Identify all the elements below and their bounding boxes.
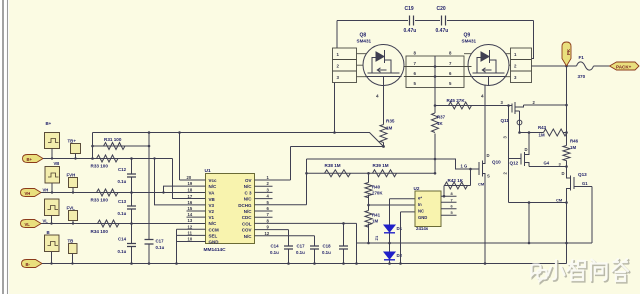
wire row3 VL to pin13 <box>41 223 206 225</box>
grid pin numbers <box>414 51 453 87</box>
svg-text:Q13: Q13 <box>578 172 587 177</box>
wire OV cross rail <box>307 172 436 174</box>
svg-text:12: 12 <box>265 231 270 236</box>
svg-text:Q12: Q12 <box>510 161 519 166</box>
svg-text:B+: B+ <box>27 157 33 162</box>
svg-text:17: 17 <box>188 194 193 199</box>
IC right pin numbers <box>265 175 270 236</box>
svg-text:R46: R46 <box>570 139 579 144</box>
svg-text:R33 100: R33 100 <box>91 198 109 203</box>
wire COL drop <box>356 223 358 243</box>
transistor Q11 <box>512 102 524 133</box>
svg-text:13: 13 <box>188 218 193 223</box>
svg-text:4: 4 <box>481 94 484 99</box>
svg-text:V3: V3 <box>209 203 215 208</box>
capacitor C18 <box>339 246 348 249</box>
wire CM return line <box>357 242 593 244</box>
svg-text:0.47u: 0.47u <box>436 28 449 34</box>
wire box B+ stub <box>51 149 53 159</box>
svg-text:R41: R41 <box>372 213 381 218</box>
svg-text:1M: 1M <box>539 133 545 138</box>
svg-text:In: In <box>418 202 422 207</box>
svg-text:VB: VB <box>209 197 216 202</box>
svg-text:Z1: Z1 <box>374 235 379 240</box>
transistor Q10 <box>475 153 486 177</box>
wire Q12 gate bottom drop <box>509 202 567 204</box>
wire box row2 stub <box>51 183 53 193</box>
svg-text:2414s: 2414s <box>416 226 429 231</box>
svg-text:F1: F1 <box>579 55 585 60</box>
svg-text:SEL: SEL <box>209 233 218 238</box>
svg-text:0.1u: 0.1u <box>296 250 305 255</box>
wire grid center drop and R37 column <box>434 88 436 174</box>
junction dots middle <box>367 104 472 265</box>
svg-text:V2: V2 <box>209 209 215 214</box>
svg-text:R45 27K: R45 27K <box>447 98 466 103</box>
svg-text:GND: GND <box>209 240 220 245</box>
IC right pin names <box>238 178 252 239</box>
svg-text:C13: C13 <box>118 199 127 204</box>
resistor R40 <box>365 183 372 198</box>
wire R42 to Q10 gate <box>444 169 471 186</box>
test point TB <box>69 244 78 254</box>
resistor R39 <box>373 170 397 177</box>
wire CM to bus link <box>356 243 358 264</box>
svg-text:10: 10 <box>188 237 193 242</box>
svg-text:MM1414C: MM1414C <box>204 247 227 253</box>
svg-text:11: 11 <box>188 230 193 235</box>
svg-text:R43: R43 <box>538 125 547 130</box>
svg-text:GND: GND <box>418 215 427 220</box>
wire top-left drop to Q8 box <box>336 21 338 49</box>
svg-text:COV: COV <box>242 228 252 233</box>
wire TB+ stub <box>75 154 77 159</box>
svg-text:N/C: N/C <box>209 221 218 226</box>
junction dots IC area <box>153 145 385 265</box>
Q9 package box pins 1-3 <box>506 48 532 83</box>
svg-text:D1: D1 <box>397 226 403 231</box>
transistor Q12 <box>509 147 530 167</box>
svg-text:0.1u: 0.1u <box>118 249 127 254</box>
svg-text:S: S <box>487 174 490 179</box>
capacitor C14 <box>284 246 293 249</box>
wire vertical cap C17 column <box>148 133 150 264</box>
sheet left border <box>0 0 9 294</box>
transistor Q8 <box>363 45 404 86</box>
svg-text:R39 1M: R39 1M <box>373 163 389 168</box>
wire Q12 drain up <box>528 133 530 147</box>
svg-text:0.47u: 0.47u <box>404 28 417 34</box>
wire vertical Vcc link <box>179 133 181 181</box>
wire box B- stub <box>51 252 53 264</box>
wire R40 R41 column <box>368 173 370 243</box>
resistor R38 <box>325 170 351 177</box>
resistor R32 <box>97 155 119 162</box>
svg-text:1M: 1M <box>372 219 378 224</box>
fuse F1 <box>577 62 594 70</box>
wire gate drop column <box>508 106 510 203</box>
svg-text:N/C: N/C <box>244 234 253 239</box>
svg-text:U2: U2 <box>414 186 420 191</box>
svg-text:C19: C19 <box>405 6 414 12</box>
wire pin1 OV riser <box>290 147 292 181</box>
svg-text:CM: CM <box>556 198 563 203</box>
capacitor C19 <box>410 16 414 26</box>
svg-text:R35: R35 <box>386 119 395 124</box>
svg-text:R34 100: R34 100 <box>91 229 109 234</box>
svg-text:0.1u: 0.1u <box>156 245 165 250</box>
fuse box row2 <box>45 167 60 184</box>
wire Q9 gate to Q10 drain <box>484 85 486 153</box>
wire R37 bottom to Q10 gate <box>435 159 475 169</box>
port VH oval terminal <box>21 189 42 197</box>
svg-text:C17: C17 <box>297 244 306 249</box>
svg-text:370: 370 <box>578 74 586 79</box>
svg-text:N/C: N/C <box>244 209 253 214</box>
svg-text:0.1u: 0.1u <box>270 250 279 255</box>
wire C17 column <box>314 236 316 264</box>
wire R40 bottom to U2 pin2 <box>369 204 416 206</box>
capacitor C20 <box>442 16 446 26</box>
junction dots left section <box>50 131 181 265</box>
Q8 package box pins 1-3 <box>333 48 367 83</box>
wire diode column <box>389 199 391 264</box>
svg-text:Q10: Q10 <box>492 160 501 165</box>
port PACK+ <box>610 62 640 70</box>
diode D1 <box>384 225 395 232</box>
resistor R31 <box>104 143 126 150</box>
svg-text:D: D <box>487 153 490 158</box>
wire row1 B+ <box>43 158 173 160</box>
svg-text:N/C: N/C <box>244 197 253 202</box>
svg-text:270K: 270K <box>372 191 383 196</box>
IC U2 right pin stubs <box>441 196 457 215</box>
svg-text:D2: D2 <box>397 253 403 258</box>
node PK junction <box>565 65 568 68</box>
svg-text:20: 20 <box>187 175 192 180</box>
wire top rail <box>337 20 534 22</box>
wire pin5 DCHG riser <box>306 159 308 205</box>
wire vertical B+ tap <box>92 133 94 159</box>
wire line A top rail <box>93 133 384 147</box>
svg-text:DCHG: DCHG <box>238 203 252 208</box>
test point TB+ <box>71 144 81 154</box>
fuse box B+ <box>45 133 60 149</box>
svg-text:7: 7 <box>451 197 453 202</box>
transistor Q13 <box>567 172 593 194</box>
svg-text:CCM: CCM <box>209 227 219 232</box>
svg-text:C12: C12 <box>118 167 127 172</box>
wire DCHG cross rail <box>307 158 436 160</box>
IC U2 body <box>415 191 441 227</box>
wire Q12 net drop <box>528 203 530 244</box>
port VL oval terminal <box>21 220 42 228</box>
junction dots right <box>355 104 568 265</box>
transistor Q9 <box>468 45 509 86</box>
svg-text:TB+: TB+ <box>68 139 77 144</box>
wire bottom bus B- <box>42 263 567 265</box>
svg-text:SM431: SM431 <box>462 39 477 44</box>
wire vertical pin17 link <box>173 159 206 199</box>
svg-text:G1: G1 <box>582 181 588 186</box>
wire U2 pin1 to diode column <box>390 198 416 200</box>
port PK vertical terminal <box>562 42 571 66</box>
resistor R46 <box>563 146 570 161</box>
resistor R42 <box>445 182 468 189</box>
svg-text:1M: 1M <box>570 145 576 150</box>
wire IC GND column <box>176 229 178 263</box>
wire FVL stub <box>72 221 74 224</box>
wire 27K gate rail <box>435 105 512 107</box>
svg-text:FVL: FVL <box>67 206 76 211</box>
IC left pin names <box>209 178 220 245</box>
svg-text:VH: VH <box>25 191 31 196</box>
svg-text:VA: VA <box>209 190 216 195</box>
resistor R41 <box>365 211 372 228</box>
svg-text:19: 19 <box>188 181 193 186</box>
svg-text:R33 100: R33 100 <box>91 164 109 169</box>
svg-text:R40: R40 <box>372 185 381 190</box>
capacitor C17 left column <box>145 240 154 245</box>
wire Q11 drain to rail <box>524 104 567 106</box>
svg-text:VB: VB <box>54 161 60 166</box>
test point FVH <box>69 178 78 188</box>
svg-text:SM431: SM431 <box>357 39 372 44</box>
wire fuse to PACK+ <box>594 65 610 67</box>
capacitor C17 <box>310 246 319 249</box>
IC U2 pin names <box>418 196 427 221</box>
svg-text:1K: 1K <box>437 121 443 126</box>
wire U2 pin3 column <box>401 212 416 264</box>
wire R42 left link to U2 <box>443 186 445 197</box>
wire box row3 stub <box>51 216 53 224</box>
svg-text:CDC: CDC <box>242 215 252 220</box>
IC right pin stubs <box>255 147 436 264</box>
svg-text:15: 15 <box>188 206 193 211</box>
svg-text:R42 1K: R42 1K <box>448 178 464 183</box>
svg-text:B-: B- <box>26 262 31 267</box>
svg-text:0.1u: 0.1u <box>118 211 127 216</box>
wire FVH stub <box>72 188 74 193</box>
test point FVL <box>69 211 78 221</box>
wire top-right drop to Q9 box <box>532 21 534 59</box>
wire line B gate feed <box>291 146 384 148</box>
svg-text:COL: COL <box>242 221 252 226</box>
svg-text:FVH: FVH <box>67 173 76 178</box>
wire Q13 gate column <box>591 187 593 244</box>
wire Q9 box to PACK junction <box>532 65 577 67</box>
svg-text:C14: C14 <box>118 237 127 242</box>
resistor R35 Q8 gate pulldown <box>380 125 387 143</box>
svg-text:G4: G4 <box>544 161 550 166</box>
svg-text:PK: PK <box>566 48 571 55</box>
svg-text:PACK+: PACK+ <box>616 64 632 69</box>
svg-text:e*: e* <box>418 196 422 201</box>
svg-text:4: 4 <box>376 94 379 99</box>
capacitor C13 <box>127 206 136 209</box>
wire Q13 source down <box>566 194 568 264</box>
svg-text:1M: 1M <box>386 126 393 131</box>
resistor R34 <box>98 220 120 227</box>
svg-text:OV: OV <box>245 178 252 183</box>
svg-text:C17: C17 <box>156 239 165 244</box>
svg-text:R37: R37 <box>437 115 446 120</box>
svg-text:VL: VL <box>25 222 31 227</box>
svg-text:D: D <box>562 171 565 176</box>
svg-text:C14: C14 <box>271 244 280 249</box>
svg-text:TB: TB <box>68 239 74 244</box>
wire Q8 box to line A <box>334 83 336 133</box>
resistor R33 <box>97 189 119 196</box>
wire row2 VH to pin18 <box>41 192 206 194</box>
svg-text:0.1u: 0.1u <box>118 179 127 184</box>
watermark logo and text 小智问答 <box>533 260 630 282</box>
svg-text:R38 1M: R38 1M <box>325 163 341 168</box>
svg-text:C18: C18 <box>323 244 332 249</box>
svg-text:14: 14 <box>188 212 193 217</box>
wire row2 to pin19 link <box>164 186 187 192</box>
port B+ oval terminal <box>23 155 44 163</box>
svg-text:V1: V1 <box>209 215 215 220</box>
capacitor C12 <box>127 174 136 177</box>
svg-text:18: 18 <box>188 187 193 192</box>
svg-text:CM: CM <box>478 182 485 187</box>
resistor R37 <box>432 113 439 133</box>
wire row1 to pin16 link <box>155 159 187 205</box>
svg-text:N/C: N/C <box>244 184 253 189</box>
wire C14 column <box>288 230 290 264</box>
capacitor C14 left <box>127 244 136 247</box>
fuse box row3 <box>45 199 60 216</box>
grid center tie wire <box>434 56 436 88</box>
wire C18 column <box>343 223 345 263</box>
port B- oval terminal <box>22 260 43 268</box>
diode D2 <box>384 252 395 259</box>
svg-text:B+: B+ <box>46 121 52 126</box>
wire Q10 source to bus <box>484 177 486 264</box>
svg-text:VH: VH <box>43 187 49 192</box>
svg-text:16: 16 <box>188 200 193 205</box>
svg-text:12: 12 <box>188 224 193 229</box>
wire R43 row <box>520 132 567 134</box>
wire R31 row <box>93 145 150 147</box>
resistor R45 27K <box>449 102 472 109</box>
svg-text:D: D <box>525 147 528 152</box>
svg-text:N/C: N/C <box>209 184 218 189</box>
wire PACK rail main vertical <box>566 66 568 172</box>
svg-text:B: B <box>47 230 50 235</box>
op-amp U1 protection IC body <box>206 174 255 244</box>
svg-text:C 3: C 3 <box>244 190 252 195</box>
svg-text:C20: C20 <box>437 6 446 12</box>
wire Q8 gate drop <box>383 86 385 147</box>
svg-text:0.1u: 0.1u <box>322 250 331 255</box>
wire TB stub <box>72 254 74 264</box>
svg-text:1 G: 1 G <box>461 164 468 169</box>
resistor R43 <box>544 129 568 136</box>
svg-text:Vcc: Vcc <box>209 178 218 183</box>
svg-text:R31 100: R31 100 <box>104 137 122 142</box>
IC left pin stubs <box>155 159 206 264</box>
svg-text:VL: VL <box>43 218 49 223</box>
wire Q12 source to rail <box>529 166 567 168</box>
fuse box B- <box>45 235 60 252</box>
IC left pin numbers <box>187 175 193 242</box>
drain pin grid box between Q8 and Q9 <box>404 54 472 88</box>
svg-text:NC: NC <box>418 209 424 214</box>
